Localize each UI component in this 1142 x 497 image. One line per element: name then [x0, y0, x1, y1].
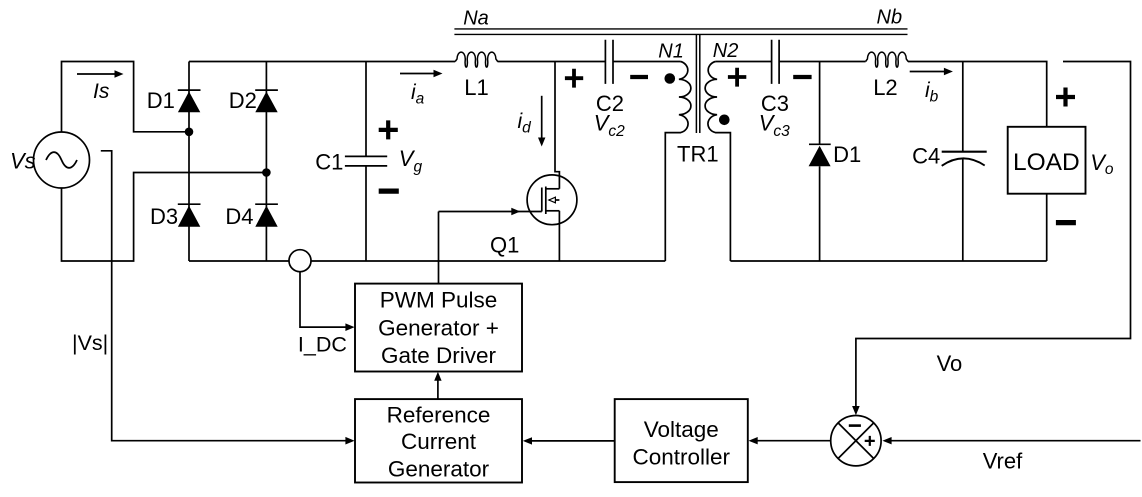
summing junction plus — [865, 436, 875, 446]
inductor L1 — [455, 52, 498, 67]
minus sign C1 — [379, 189, 399, 194]
wire C3 to L2 — [779, 61, 866, 63]
inductor L2 — [866, 52, 909, 67]
mosfet Q1 channel bar — [545, 187, 547, 215]
summing junction X — [838, 423, 874, 459]
wire L2 to load top — [908, 62, 1047, 127]
svg-text:PWM Pulse: PWM Pulse — [380, 287, 498, 312]
svg-text:Voltage: Voltage — [644, 417, 719, 442]
mosfet Q1 drain bar — [546, 188, 560, 190]
Voltage Controller box — [615, 399, 748, 482]
mosfet Q1 gate bar — [541, 188, 543, 212]
svg-text:D3: D3 — [150, 204, 178, 229]
diode D4 — [255, 203, 278, 205]
diode D1 output branch — [819, 62, 821, 262]
wire I_DC to PWM box — [300, 272, 346, 327]
minus sign C2 — [630, 75, 648, 79]
arrowhead into summing junction — [852, 406, 860, 415]
svg-text:Na: Na — [463, 7, 489, 29]
diode D3 — [178, 203, 201, 205]
PWM box — [355, 284, 522, 372]
svg-text:Vs: Vs — [10, 149, 36, 174]
capacitor C1 leads — [365, 62, 367, 262]
wire summing to Voltage Controller — [757, 440, 831, 442]
wire gate drive — [439, 212, 542, 284]
capacitor C1 plates — [345, 156, 387, 166]
diode D2 — [255, 89, 278, 91]
svg-text:N2: N2 — [713, 40, 739, 62]
arrowhead into PWM bottom — [434, 372, 441, 381]
svg-text:Generator: Generator — [388, 457, 490, 482]
svg-text:Generator +: Generator + — [378, 315, 499, 340]
svg-text:|Vs|: |Vs| — [72, 331, 108, 355]
wire bottom bus primary side — [189, 260, 665, 262]
svg-text:TR1: TR1 — [677, 142, 719, 167]
capacitor C4 branch — [962, 62, 964, 262]
plus sign C2 — [565, 69, 583, 88]
mosfet Q1 source bar — [546, 210, 560, 212]
wire Q1 source to bottom bus — [558, 211, 560, 261]
svg-text:Vg: Vg — [399, 146, 423, 176]
wire top bus bridge to L1 — [189, 61, 455, 63]
wire C2 to transformer primary — [613, 61, 681, 63]
svg-text:C1: C1 — [315, 150, 343, 175]
svg-text:Reference: Reference — [387, 403, 491, 428]
wire source bottom to bridge AC2 — [62, 173, 267, 262]
current sensor circle I_DC — [289, 250, 311, 272]
wire |Vs| sense tap — [101, 151, 346, 441]
diode D1 output triangle — [809, 146, 831, 166]
bridge leg D1 D3 — [188, 62, 190, 262]
svg-text:Nb: Nb — [877, 6, 903, 28]
plus sign LOAD — [1056, 88, 1075, 107]
minus sign LOAD — [1056, 220, 1076, 225]
mosfet Q1 circle — [527, 175, 577, 225]
node dot AC2 — [262, 168, 271, 177]
svg-text:D1: D1 — [833, 142, 861, 167]
wire bottom bus secondary side — [730, 260, 1046, 262]
svg-text:Current: Current — [401, 429, 477, 454]
svg-text:L2: L2 — [873, 75, 897, 100]
svg-text:I_DC: I_DC — [298, 333, 347, 357]
mosfet Q1 body bar — [549, 199, 560, 201]
mosfet Q1 body arrow — [549, 197, 556, 203]
svg-text:Controller: Controller — [633, 444, 731, 469]
wire source top to bridge AC1 — [62, 62, 190, 133]
transformer core vertical — [696, 35, 699, 133]
plus sign C3 — [728, 68, 746, 87]
summing junction minus — [849, 424, 861, 427]
wire load bottom — [1046, 194, 1048, 261]
wire secondary to C3 — [715, 61, 771, 63]
node dot AC1 — [185, 128, 194, 137]
diode D1 — [178, 89, 201, 91]
LOAD box — [1008, 127, 1086, 194]
svg-text:Is: Is — [93, 80, 110, 103]
wire Reference to PWM — [437, 380, 439, 400]
svg-text:id: id — [518, 110, 533, 137]
sine wave inside source — [46, 152, 77, 168]
arrowhead into Reference box right — [523, 437, 532, 444]
summing junction circle — [831, 416, 881, 466]
svg-text:N1: N1 — [658, 41, 684, 63]
Reference box — [355, 399, 522, 482]
wire Vref input — [891, 440, 1141, 442]
wire Q1 drain from top bus — [555, 62, 559, 189]
capacitor C2 plates — [605, 40, 613, 84]
wire Voltage Controller to Reference box — [531, 440, 615, 442]
wire Vo feedback loop — [856, 62, 1131, 408]
arrow i_a — [400, 73, 436, 75]
arrowhead into PWM box — [345, 323, 354, 331]
svg-text:D1: D1 — [147, 88, 175, 113]
svg-text:Vref: Vref — [983, 449, 1023, 474]
capacitor C4 top plate — [942, 151, 987, 153]
svg-text:D2: D2 — [229, 88, 257, 113]
transformer core horizontal — [454, 29, 907, 35]
svg-text:Vo: Vo — [1090, 150, 1114, 178]
diode D1 output bar — [809, 143, 831, 145]
arrow Is — [77, 73, 116, 75]
bridge leg D2 D4 — [265, 62, 267, 262]
svg-text:L1: L1 — [464, 75, 488, 100]
arrowhead Vref into summing — [882, 437, 891, 444]
svg-text:Q1: Q1 — [490, 233, 519, 258]
svg-text:ib: ib — [925, 79, 939, 106]
svg-text:Gate Driver: Gate Driver — [381, 343, 497, 368]
arrowhead gate — [511, 208, 520, 215]
svg-text:LOAD: LOAD — [1013, 149, 1080, 176]
arrowhead into Voltage Controller — [749, 437, 758, 444]
source Vs — [34, 132, 90, 188]
svg-text:Vo: Vo — [937, 351, 963, 376]
dot N2 polarity — [719, 115, 730, 126]
plus sign C1 — [379, 120, 398, 139]
transformer secondary winding N2 — [705, 62, 730, 262]
arrowhead into Reference box — [345, 437, 354, 445]
capacitor C3 plates — [772, 40, 780, 84]
svg-text:ia: ia — [411, 81, 425, 108]
dot N1 polarity — [665, 73, 676, 84]
svg-text:D4: D4 — [225, 204, 253, 229]
wire top bus L1 to C2 — [498, 61, 606, 63]
capacitor C4 curved plate — [942, 158, 985, 165]
minus sign C3 — [793, 75, 811, 79]
svg-text:C4: C4 — [912, 144, 940, 169]
arrow i_b — [910, 71, 947, 73]
arrow i_d — [541, 96, 543, 139]
transformer primary winding N1 — [665, 62, 691, 262]
